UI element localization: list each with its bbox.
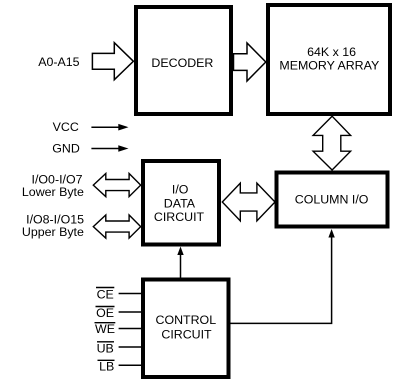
arrow MEMORY ARRAY to COLUMN I/O (hollow vertical double arrow) [313, 116, 351, 170]
label OE (overline) [96, 306, 115, 320]
wire CONTROL CIRCUIT to I/O DATA CIRCUIT (vertical, arrow up) [177, 247, 183, 280]
label I/O0-I/O7 Lower Byte [22, 172, 84, 199]
wire CE to CONTROL CIRCUIT [119, 293, 142, 295]
label WE (overline) [95, 322, 116, 336]
svg-text:WE: WE [95, 322, 115, 336]
svg-text:DECODER: DECODER [151, 56, 213, 70]
svg-text:CONTROL: CONTROL [156, 313, 217, 327]
wire OE to CONTROL CIRCUIT [119, 311, 142, 313]
svg-text:A0-A15: A0-A15 [38, 55, 79, 69]
svg-text:MEMORY ARRAY: MEMORY ARRAY [279, 58, 379, 72]
label CE (overline) [96, 288, 114, 302]
wire CONTROL CIRCUIT to COLUMN I/O (L-shape, arrow up) [229, 229, 335, 323]
arrow I/O8-I/O15 (hollow double arrow) [93, 215, 140, 238]
arrow I/O DATA CIRCUIT to COLUMN I/O (hollow horizontal double arrow) [222, 183, 275, 221]
arrow VCC (small filled) [91, 124, 128, 131]
label LB (overline) [98, 360, 115, 374]
svg-text:CIRCUIT: CIRCUIT [161, 327, 212, 341]
svg-text:Lower Byte: Lower Byte [22, 185, 84, 199]
svg-text:OE: OE [96, 306, 114, 320]
wire LB to CONTROL CIRCUIT [119, 364, 142, 366]
arrow I/O0-I/O7 (hollow double arrow) [93, 174, 140, 197]
label UB (overline) [97, 342, 114, 356]
svg-text:LB: LB [99, 360, 114, 374]
svg-text:UB: UB [97, 342, 114, 356]
svg-text:COLUMN I/O: COLUMN I/O [295, 193, 369, 207]
svg-text:DATA: DATA [164, 196, 196, 210]
wire UB to CONTROL CIRCUIT [119, 346, 142, 348]
block 64K x 16 MEMORY ARRAY [268, 5, 390, 114]
label I/O8-I/O15 Upper Byte [22, 213, 84, 240]
svg-text:CIRCUIT: CIRCUIT [154, 210, 205, 224]
svg-text:64K x 16: 64K x 16 [307, 45, 356, 59]
svg-text:CE: CE [97, 288, 114, 302]
block I/O DATA CIRCUIT [143, 161, 219, 245]
block COLUMN I/O [277, 173, 388, 227]
wire WE to CONTROL CIRCUIT [119, 328, 142, 330]
svg-text:VCC: VCC [53, 120, 79, 134]
arrow A0-A15 to DECODER (hollow right arrow) [92, 43, 133, 80]
arrow GND (small filled) [91, 145, 128, 152]
arrow DECODER to MEMORY ARRAY (hollow right arrow) [234, 43, 266, 81]
svg-text:I/O: I/O [172, 183, 189, 197]
svg-text:GND: GND [52, 141, 80, 155]
block DECODER [136, 7, 231, 114]
block CONTROL CIRCUIT [143, 280, 229, 378]
svg-text:Upper Byte: Upper Byte [22, 225, 84, 239]
